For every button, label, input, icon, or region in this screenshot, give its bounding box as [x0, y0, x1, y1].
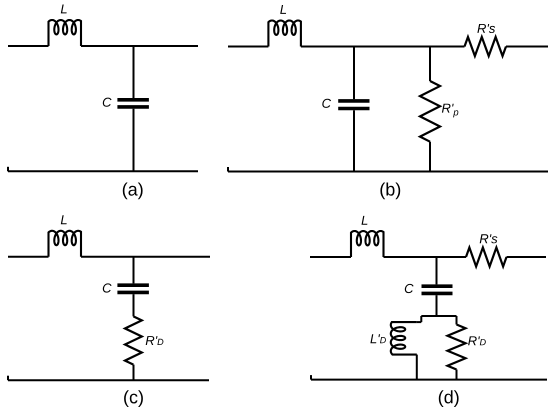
resistor R'D (panel c) [125, 316, 142, 364]
wire: panel d top middle segment [384, 256, 467, 258]
wire: panel a top-right segment [81, 45, 198, 47]
label C (panel c) [103, 283, 112, 292]
wire: panel c top-left segment [8, 256, 49, 258]
label L'D (panel d) [370, 334, 386, 343]
wire: panel a node to capacitor [133, 46, 135, 98]
wire: panel b bottom-left tick [227, 167, 229, 172]
wire: panel c top-right segment [81, 256, 210, 258]
capacitor C top plate (panel b) [338, 99, 369, 103]
wire: panel d parallel top bar [421, 315, 456, 317]
label L (panel a) [61, 5, 67, 14]
capacitor C top plate (panel a) [117, 98, 148, 102]
resistor R'p (panel b) [420, 81, 440, 142]
wire: panel c node to capacitor [133, 257, 135, 284]
wire: panel a bottom rail [8, 170, 198, 172]
wire: panel d capacitor to parallel node [436, 295, 438, 316]
wire: panel b top middle segment [301, 46, 465, 48]
wire: panel b top-left segment [228, 46, 268, 48]
wire: panel c resistor R'D to bottom [133, 365, 135, 381]
label C (panel a) [103, 98, 112, 107]
label R's (panel b) [477, 24, 495, 33]
resistor R's (panel d) [466, 248, 507, 267]
label R'D (panel d) [468, 336, 486, 345]
inductor L (panel b) [268, 21, 301, 47]
resistor R's (panel b) [465, 37, 507, 56]
wire: panel d inductor to bottom rail [416, 355, 418, 380]
label L (panel d) [362, 216, 368, 225]
wire: panel c capacitor to resistor R'D [133, 294, 135, 316]
wire: panel b node to capacitor [353, 47, 355, 100]
wire: panel b capacitor to bottom [353, 110, 355, 171]
wire: panel b bottom rail [228, 171, 548, 173]
label R'D (panel c) [146, 336, 164, 345]
wire: panel d left branch to inductor [417, 321, 422, 323]
resistor R'D (panel d) [448, 325, 466, 370]
inductor L (panel c) [49, 231, 82, 257]
label (d) [439, 390, 459, 407]
wire: panel d bottom-left tick [310, 375, 312, 380]
capacitor C bottom plate (panel c) [117, 291, 148, 295]
inductor L'D (panel d) [391, 322, 417, 355]
capacitor C bottom plate (panel b) [338, 107, 369, 111]
label (c) [124, 390, 143, 407]
wire: panel b top-right segment [506, 46, 548, 48]
wire: panel d top-left segment [310, 256, 351, 258]
capacitor C bottom plate (panel a) [117, 105, 148, 109]
wire: panel b node to resistor R'p [429, 47, 431, 82]
wire: panel d bottom rail [311, 379, 547, 381]
inductor L (panel a) [49, 20, 82, 46]
wire: panel c bottom-left tick [7, 376, 9, 381]
wire: panel a bottom-left tick [7, 167, 9, 172]
wire: panel d top-right segment [507, 256, 547, 258]
wire: panel c bottom rail [8, 379, 209, 381]
capacitor C top plate (panel c) [117, 283, 148, 287]
wire: panel d right branch to resistor R'D [456, 316, 458, 325]
label R'p (panel b) [442, 104, 458, 118]
label (a) [123, 183, 143, 200]
wire: panel d resistor R'D to bottom [456, 370, 458, 380]
wire: panel b resistor R'p to bottom [429, 142, 431, 172]
label (b) [380, 183, 400, 200]
inductor L (panel d) [351, 231, 384, 257]
capacitor C top plate (panel d) [422, 284, 453, 288]
label L (panel b) [280, 5, 286, 14]
label L (panel c) [61, 215, 67, 224]
wire: panel d left branch down-step [420, 316, 422, 322]
wire: panel a top-left segment [8, 45, 49, 47]
wire: panel d node to capacitor [436, 257, 438, 284]
wire: panel a capacitor to bottom [133, 109, 135, 172]
label C (panel d) [405, 284, 414, 293]
label C (panel b) [322, 99, 331, 108]
label R's (panel d) [480, 234, 498, 243]
capacitor C bottom plate (panel d) [422, 292, 453, 296]
